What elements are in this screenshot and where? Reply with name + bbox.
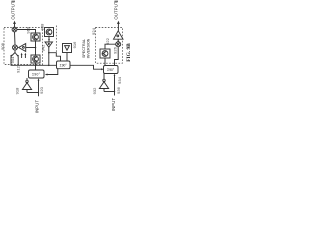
label 934 <box>117 76 122 83</box>
node J5 <box>114 91 115 92</box>
label 910 <box>26 26 31 33</box>
input label right <box>111 98 116 112</box>
svg-text:918: 918 <box>15 87 20 94</box>
svg-text:916: 916 <box>72 41 77 48</box>
output tick left <box>12 0 16 2</box>
label 924 <box>91 27 96 34</box>
label 904 <box>10 56 15 63</box>
svg-text:Σ90°: Σ90° <box>107 68 115 72</box>
svg-text:934: 934 <box>117 76 122 83</box>
svg-text:SPECTRAL: SPECTRAL <box>82 39 86 58</box>
svg-text:FIG. 9B: FIG. 9B <box>126 43 132 62</box>
wire LO split below mixer M1 <box>10 50 19 65</box>
label 942 <box>41 44 46 51</box>
svg-text:924: 924 <box>91 27 96 34</box>
wire box Q3 to phase box 928 <box>104 58 106 66</box>
spectral inversion label <box>82 38 91 58</box>
wire amp A2 to phase box 940 <box>49 53 61 61</box>
wire osc to amp A2 with arrow <box>48 37 50 43</box>
wire summer to box Q1 <box>17 30 36 34</box>
wire amp A2 down <box>48 47 50 65</box>
label 918 <box>15 87 20 94</box>
label 912 <box>16 65 21 72</box>
figure caption FIG. 9B <box>126 43 132 62</box>
label 936 <box>116 86 121 93</box>
input wire left <box>38 78 40 96</box>
wire antenna base to input line <box>27 92 39 94</box>
wire box 916 down <box>66 53 68 62</box>
arrow into box 928 <box>101 68 104 70</box>
wire antenna2 base to input line <box>104 91 115 93</box>
svg-text:920: 920 <box>39 86 44 93</box>
amp A2 <box>45 42 53 47</box>
output arrow left <box>13 21 16 28</box>
label 908 <box>0 42 5 49</box>
input label left <box>35 100 40 114</box>
label 916 <box>72 41 77 48</box>
phase shifter box 940 <box>57 61 71 69</box>
phase shifter box 928 <box>104 66 119 74</box>
node J6 <box>48 52 50 54</box>
output arrow right <box>117 21 120 31</box>
svg-text:932: 932 <box>92 87 97 94</box>
amp A3 <box>114 31 124 39</box>
dashed divider <box>55 26 57 53</box>
transistor box Q1 <box>31 33 40 41</box>
wire summer to mixer M1 <box>14 32 17 45</box>
node amp feed <box>35 47 37 49</box>
wire mixer M2 to box Q3 <box>105 44 116 49</box>
label 932 <box>92 87 97 94</box>
label 938 <box>40 23 45 30</box>
svg-text:INPUT: INPUT <box>35 100 40 114</box>
dashed box 924 <box>96 28 123 64</box>
svg-text:INVERSION: INVERSION <box>87 38 91 58</box>
output label right <box>114 1 119 20</box>
mixer M2 <box>116 42 121 47</box>
svg-text:926: 926 <box>113 46 118 53</box>
summer S1 <box>12 27 17 32</box>
svg-text:OUTPUT: OUTPUT <box>10 1 15 20</box>
label 922 <box>105 37 110 44</box>
antenna ANT2 <box>99 74 108 92</box>
svg-text:Σ90°: Σ90° <box>60 63 68 67</box>
dashed box 902 <box>4 28 43 65</box>
node J3 <box>38 92 39 93</box>
svg-text:Σ90°: Σ90° <box>32 73 41 77</box>
attenuator box 916 <box>63 44 72 53</box>
wire box Q1b to box 918 <box>35 63 37 70</box>
wire phase box to right half <box>70 65 102 69</box>
oscillator box 938 <box>45 28 54 37</box>
phase box 918 <box>29 70 45 78</box>
node long wire <box>35 65 37 67</box>
bias arrows under amp A1 <box>21 53 27 58</box>
wire amp A3 to mixer M2 <box>117 39 119 43</box>
svg-text:912: 912 <box>16 65 21 72</box>
wire phase box down to arrow <box>47 69 58 75</box>
svg-text:938: 938 <box>40 23 45 30</box>
svg-text:904: 904 <box>10 56 15 63</box>
antenna ANT1 <box>22 78 31 93</box>
transistor box Q3 <box>100 49 110 58</box>
svg-text:936: 936 <box>116 86 121 93</box>
svg-text:910: 910 <box>26 26 31 33</box>
long wire <box>11 64 57 66</box>
input wire right <box>114 74 116 96</box>
transistor box Q1b <box>31 55 40 63</box>
mixer M1 <box>13 45 18 50</box>
output label left <box>10 1 15 20</box>
wire to amp A1 <box>26 47 36 49</box>
node J1 <box>48 65 50 67</box>
label 920 <box>39 86 44 93</box>
amp A1 <box>19 44 26 52</box>
wire box Q1 to box Q1b <box>35 41 37 55</box>
svg-text:942: 942 <box>41 44 46 51</box>
label 926 <box>113 46 118 53</box>
svg-text:908: 908 <box>0 42 5 49</box>
arrow into box 918 <box>45 74 48 76</box>
wire mixer M2 down <box>115 47 119 66</box>
svg-text:INPUT: INPUT <box>111 98 116 112</box>
svg-text:OUTPUT: OUTPUT <box>114 1 119 20</box>
output tick right <box>115 0 119 2</box>
